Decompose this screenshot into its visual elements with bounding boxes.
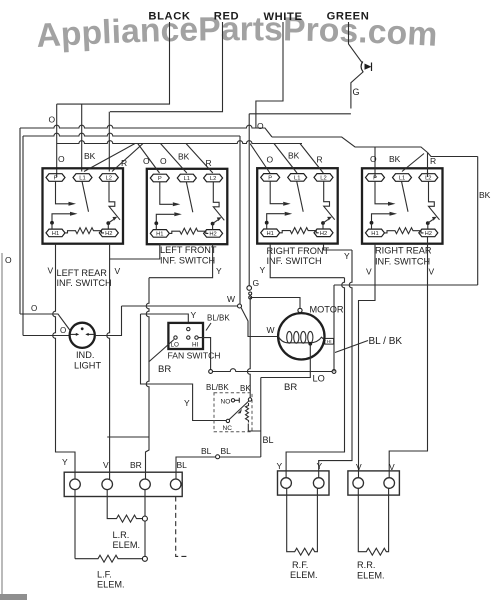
svg-text:V: V [115, 266, 121, 276]
terminal L2 left front [204, 174, 223, 182]
svg-text:BR: BR [158, 364, 171, 375]
second contact arm left rear [52, 214, 70, 223]
P contact arm right front [270, 181, 283, 204]
L1 switch blade left rear [82, 181, 89, 212]
wire motor LO down [261, 344, 311, 378]
terminal P left front [150, 174, 169, 182]
junction motor HI node [332, 370, 336, 374]
H2 junction dot left rear [106, 221, 110, 225]
wire G bus horizontal [249, 113, 351, 115]
L1 switch blade right rear [402, 181, 409, 212]
svg-text:BL/BK: BL/BK [206, 383, 229, 392]
resistor L.R. element [112, 515, 143, 522]
L2 switch leg left rear [109, 181, 120, 220]
thermal switch blade [229, 401, 249, 420]
wire BK bottom horizontal [334, 284, 478, 286]
wire R diagonal box1 [112, 144, 143, 172]
wire motor HI to BL/BK [333, 285, 335, 341]
thermal switch dashed box [214, 393, 252, 432]
wire P feed box3 [250, 144, 270, 174]
wire R drop box4 (L2) [427, 153, 429, 178]
infinite switch box left front outline [147, 169, 228, 244]
svg-text:R.F.: R.F. [292, 560, 308, 570]
terminal H2 right rear [419, 229, 438, 237]
svg-text:G: G [353, 87, 360, 97]
svg-text:L1: L1 [184, 176, 190, 182]
H1 junction dot left front [154, 221, 158, 225]
H2 junction dot right rear [426, 221, 430, 225]
svg-text:BL: BL [201, 446, 212, 456]
scan smudge bottom left [0, 594, 27, 600]
indicator light body [70, 323, 95, 348]
terminal H1 right rear [366, 229, 385, 237]
terminal L2 right rear [419, 174, 438, 182]
terminal H2 right front [314, 229, 333, 237]
svg-text:L1: L1 [294, 176, 300, 182]
svg-text:BK: BK [389, 154, 401, 164]
leader BL/BK [335, 341, 368, 353]
wire terminal4 down dashed [176, 497, 187, 557]
indicator light left electrode [71, 333, 77, 335]
svg-text:L.F.: L.F. [97, 570, 112, 580]
cycling resistor left front [169, 228, 208, 234]
bus O right (busD) [272, 137, 428, 153]
terminal block RF [278, 471, 330, 495]
motor LO junction dot [308, 342, 312, 346]
motor top terminal [298, 308, 302, 312]
svg-text:RIGHT FRONT: RIGHT FRONT [267, 246, 330, 256]
svg-text:Y: Y [260, 265, 266, 275]
wire BK diagonal box4 [402, 154, 424, 172]
P contact arm left rear [56, 181, 69, 204]
svg-text:Y: Y [191, 310, 197, 320]
svg-text:Y: Y [62, 457, 68, 467]
wire terminal2 down [107, 490, 111, 519]
thermal heater coil [246, 403, 249, 423]
svg-text:L.R.: L.R. [113, 530, 130, 540]
svg-text:LEFT REAR: LEFT REAR [57, 268, 108, 278]
svg-text:O: O [370, 154, 377, 164]
svg-text:BL / BK: BL / BK [369, 336, 403, 347]
svg-text:L2: L2 [210, 176, 216, 182]
indicator light right electrode [89, 333, 95, 335]
wire BLACK to L1 box1 [81, 104, 83, 171]
second contact arm left front [156, 214, 174, 223]
fan switch box [168, 323, 203, 349]
inline connector [249, 292, 252, 295]
terminal L2 left rear [99, 174, 118, 182]
svg-text:BK: BK [240, 384, 251, 393]
wire BR cross tie [107, 436, 149, 438]
neutral node W [238, 304, 242, 308]
fan switch common contacts [187, 327, 190, 330]
wire O to indicator light [20, 314, 71, 331]
svg-text:H1: H1 [266, 231, 273, 237]
svg-text:RED: RED [214, 11, 239, 23]
svg-text:P: P [158, 176, 162, 182]
thermal common contact [248, 398, 251, 401]
cycling resistor left rear [65, 228, 104, 234]
svg-text:ELEM.: ELEM. [357, 571, 385, 581]
svg-text:O: O [49, 115, 56, 125]
wire BL vertical right of NO-NC [260, 378, 262, 458]
terminal block left [64, 472, 182, 496]
svg-text:BK: BK [178, 152, 190, 162]
wire fan LO to BR [149, 340, 174, 363]
L.F. element terminal [142, 556, 147, 561]
svg-text:INF. SWITCH: INF. SWITCH [57, 278, 112, 288]
svg-text:L2: L2 [106, 176, 112, 182]
P contact arm left front [160, 182, 173, 205]
wire L2 feed box3 (R) [300, 144, 323, 174]
svg-text:G: G [253, 278, 260, 288]
junction fan HI node [209, 370, 213, 374]
svg-text:V: V [429, 267, 435, 277]
P contact arm right rear [375, 181, 388, 204]
wire V left vertical [22, 136, 24, 336]
wire V drop to W node [239, 136, 241, 304]
svg-text:LO: LO [313, 374, 325, 384]
svg-text:FAN SWITCH: FAN SWITCH [168, 351, 221, 361]
wire box3 H1 down [270, 244, 344, 278]
svg-text:ELEM.: ELEM. [290, 570, 318, 580]
svg-text:Y: Y [277, 461, 283, 471]
thermal NC contact [226, 419, 229, 422]
svg-text:L1: L1 [399, 176, 405, 182]
L1 switch blade left front [186, 182, 193, 213]
svg-text:H1: H1 [156, 232, 163, 238]
wire P feed box2 [138, 144, 160, 174]
svg-text:INF. SWITCH: INF. SWITCH [160, 256, 215, 266]
infinite switch box right front outline [257, 168, 338, 243]
svg-text:R: R [317, 155, 323, 165]
svg-text:O: O [160, 156, 167, 166]
terminal H1 left front [150, 230, 169, 238]
RF terminal 2 [313, 478, 324, 489]
L.R. element terminal [142, 516, 147, 521]
wire BL/BK horizontal [213, 369, 335, 372]
svg-text:O: O [257, 121, 264, 131]
RR terminal 2 [384, 478, 395, 489]
svg-text:V: V [103, 460, 109, 470]
svg-text:WHITE: WHITE [263, 11, 302, 23]
H2 contact arrow right rear [428, 220, 433, 224]
wire motor top loop [250, 298, 300, 311]
H2 contact arrow left rear [108, 220, 113, 224]
terminal 3 BR [140, 479, 151, 490]
svg-text:RIGHT REAR: RIGHT REAR [375, 246, 432, 256]
H2 junction dot left front [211, 222, 215, 226]
wire V to indicator light [23, 335, 70, 337]
terminal L2 right front [314, 174, 333, 182]
wire heater to BL [248, 424, 260, 432]
fan switch LO contact [174, 336, 177, 339]
svg-text:H2: H2 [105, 231, 112, 237]
svg-text:H2: H2 [209, 232, 216, 238]
svg-text:MOTOR: MOTOR [310, 305, 344, 315]
RF terminal 1 [281, 478, 292, 489]
svg-text:GREEN: GREEN [327, 11, 370, 23]
svg-text:BL: BL [221, 446, 232, 456]
fan switch HI contact [195, 336, 198, 339]
svg-text:H1: H1 [371, 231, 378, 237]
wire terminal1 down [74, 490, 76, 559]
terminal P right front [261, 174, 280, 182]
svg-text:LO: LO [171, 342, 180, 349]
terminal H1 right front [261, 229, 280, 237]
wire P drop box4 [374, 147, 376, 178]
ground lug on GREEN wire [361, 62, 363, 72]
svg-text:H1: H1 [52, 231, 59, 237]
infinite switch box left rear outline [43, 168, 124, 243]
ground node G [247, 286, 252, 291]
L1 switch blade right front [297, 181, 304, 212]
svg-text:BL: BL [263, 435, 274, 445]
wire ground to G bus [351, 72, 364, 109]
wire Y to RF terminal 2 [319, 250, 352, 478]
wire RR element loop [358, 488, 388, 555]
infinite switch box right rear outline [362, 168, 443, 243]
svg-text:INF. SWITCH: INF. SWITCH [267, 256, 322, 266]
svg-text:ELEM.: ELEM. [97, 580, 125, 590]
wire BLACK to P box1 [56, 104, 58, 177]
terminal 2 V [102, 479, 113, 490]
wire L1 feed box2 (BK) [161, 144, 187, 174]
svg-text:Y: Y [184, 398, 190, 408]
terminal L1 left front [177, 174, 196, 182]
svg-text:H2: H2 [320, 231, 327, 237]
watermark AppliancePartsPros.com [37, 40, 437, 47]
wire motor HI node stub [333, 341, 335, 372]
splice connector BL [216, 455, 220, 459]
svg-text:BK: BK [84, 151, 96, 161]
terminal H2 left front [204, 230, 223, 238]
H1 junction dot right rear [370, 221, 374, 225]
svg-text:O: O [143, 156, 150, 166]
bus V (busB) y=136 [23, 133, 240, 136]
terminal 4 BL [170, 479, 181, 490]
H2 junction dot right front [321, 221, 325, 225]
wire BL splice horizontal [176, 457, 261, 479]
svg-text:R: R [430, 156, 436, 166]
svg-text:L1: L1 [79, 176, 85, 182]
svg-text:P: P [268, 176, 272, 182]
svg-text:O: O [60, 326, 66, 335]
bus BK (busC) y=143.5 [57, 141, 302, 144]
wire Y to RF terminal 1 [286, 278, 344, 478]
svg-text:R.R.: R.R. [357, 560, 375, 570]
terminal P left rear [46, 174, 65, 182]
H1 junction dot right front [265, 221, 269, 225]
second contact arm right rear [372, 214, 390, 223]
wire W node to motor [241, 308, 279, 337]
motor winding [278, 336, 325, 343]
svg-text:Y: Y [216, 266, 222, 276]
wire BR down to terminal 3 [146, 437, 150, 479]
H2 contact arrow right front [323, 219, 328, 223]
thermal NO contact [231, 399, 234, 402]
H2 contact arrow left front [213, 220, 218, 224]
wire W horizontal [122, 305, 240, 307]
wire box4 L2 through [427, 172, 429, 244]
svg-text:V: V [366, 267, 372, 277]
bus O (busA) y=128 [20, 125, 272, 137]
wire box2 H2 down (Y) [149, 244, 213, 278]
wire BLACK drop [57, 22, 170, 104]
wire RED to L2 box1 [108, 112, 110, 172]
svg-text:R: R [206, 158, 212, 168]
wire BK right side drop [477, 157, 479, 286]
H1 junction dot left rear [50, 221, 54, 225]
L2 switch leg right front [324, 181, 335, 220]
second contact arm right front [267, 214, 285, 223]
wire light to W step [95, 306, 122, 336]
wire Y branch vertical [141, 314, 227, 421]
resistor L.F. element [75, 555, 142, 562]
wire box3 H2 down [324, 244, 353, 250]
svg-text:L2: L2 [425, 176, 431, 182]
svg-text:W: W [267, 325, 275, 335]
svg-text:HI: HI [192, 342, 199, 349]
wire RF element loop [287, 488, 318, 555]
wire L2 feed box2 (R) [186, 144, 213, 174]
svg-text:BK: BK [288, 151, 300, 161]
svg-text:LEFT FRONT: LEFT FRONT [160, 245, 217, 255]
svg-text:BL/BK: BL/BK [207, 314, 230, 323]
svg-text:W: W [227, 294, 235, 304]
indicator light top dot [81, 327, 84, 330]
wire O left vertical [19, 128, 21, 314]
svg-text:ELEM.: ELEM. [113, 540, 141, 550]
svg-text:O: O [58, 154, 65, 164]
svg-text:IND.: IND. [76, 350, 94, 360]
svg-text:V: V [48, 266, 54, 276]
svg-text:O: O [31, 304, 37, 313]
wire box4 H1 down [359, 244, 376, 478]
svg-text:P: P [54, 176, 58, 182]
wire box1 H2 down (V) [107, 244, 110, 479]
RR terminal 1 [353, 478, 364, 489]
motor HI tap box [325, 338, 334, 344]
wire fan HI out [198, 338, 210, 370]
svg-text:NO: NO [221, 399, 231, 406]
svg-text:BK: BK [479, 190, 491, 200]
svg-text:V: V [389, 462, 395, 472]
terminal H1 left rear [46, 229, 65, 237]
terminal P right rear [366, 174, 385, 182]
wire L1 feed box3 (BK) [274, 144, 297, 174]
wire Y net vertical [146, 278, 149, 437]
svg-text:V: V [356, 462, 362, 472]
scan edge streak left [1, 253, 3, 600]
svg-text:Y: Y [344, 251, 350, 261]
wire WHITE drop [256, 22, 283, 128]
svg-text:BL: BL [177, 460, 188, 470]
bus BK right tap (busE) y=156 [428, 153, 478, 157]
motor body [278, 313, 324, 359]
wire box1 H1 down (Y) [53, 244, 75, 479]
svg-text:LIGHT: LIGHT [74, 361, 101, 371]
svg-text:INF. SWITCH: INF. SWITCH [375, 257, 430, 267]
svg-text:H2: H2 [425, 231, 432, 237]
svg-text:BR: BR [130, 460, 142, 470]
svg-text:O: O [267, 155, 274, 165]
cycling resistor right rear [385, 228, 424, 234]
wire G/neutral drop to ground node [248, 114, 250, 286]
svg-text:BR: BR [284, 382, 297, 393]
terminal L1 right front [288, 174, 307, 182]
wire box4 H2 down [389, 244, 427, 478]
cycling resistor right front [280, 228, 319, 234]
terminal L1 left rear [73, 174, 92, 182]
wire RED drop [110, 22, 223, 112]
wire terminal3 down [144, 490, 146, 557]
terminal H2 left rear [99, 229, 118, 237]
svg-text:L2: L2 [320, 176, 326, 182]
svg-text:O: O [5, 255, 12, 265]
svg-text:HI: HI [327, 339, 332, 344]
wire Y to fan switch [141, 314, 189, 323]
svg-text:Y: Y [317, 461, 323, 471]
wire BK diagonal box1 [84, 144, 135, 172]
wire box2 H1 left jog [110, 244, 160, 259]
svg-text:BLACK: BLACK [148, 11, 190, 23]
terminal L1 right rear [393, 174, 412, 182]
terminal block RR [348, 471, 400, 495]
wire BK to thermal switch [247, 299, 250, 398]
terminal 1 Y [70, 479, 81, 490]
svg-text:NC: NC [223, 425, 233, 432]
L2 switch leg right rear [429, 181, 440, 220]
wire GREEN drop [349, 22, 363, 63]
L2 switch leg left front [213, 182, 224, 221]
